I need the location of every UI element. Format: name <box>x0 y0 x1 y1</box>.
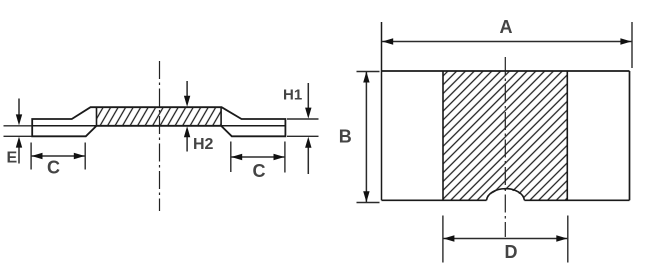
svg-text:E: E <box>7 149 18 166</box>
svg-text:C: C <box>253 161 266 181</box>
svg-text:H2: H2 <box>193 136 214 153</box>
svg-text:C: C <box>47 158 60 178</box>
svg-text:D: D <box>505 242 518 262</box>
svg-text:H1: H1 <box>283 87 302 104</box>
svg-text:A: A <box>500 17 513 37</box>
svg-text:B: B <box>339 127 352 147</box>
